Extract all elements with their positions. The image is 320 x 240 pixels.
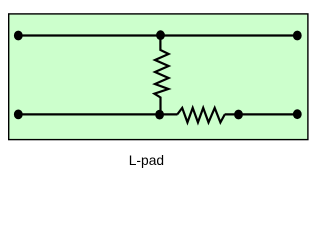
svg-text:L-pad: L-pad — [129, 153, 164, 168]
